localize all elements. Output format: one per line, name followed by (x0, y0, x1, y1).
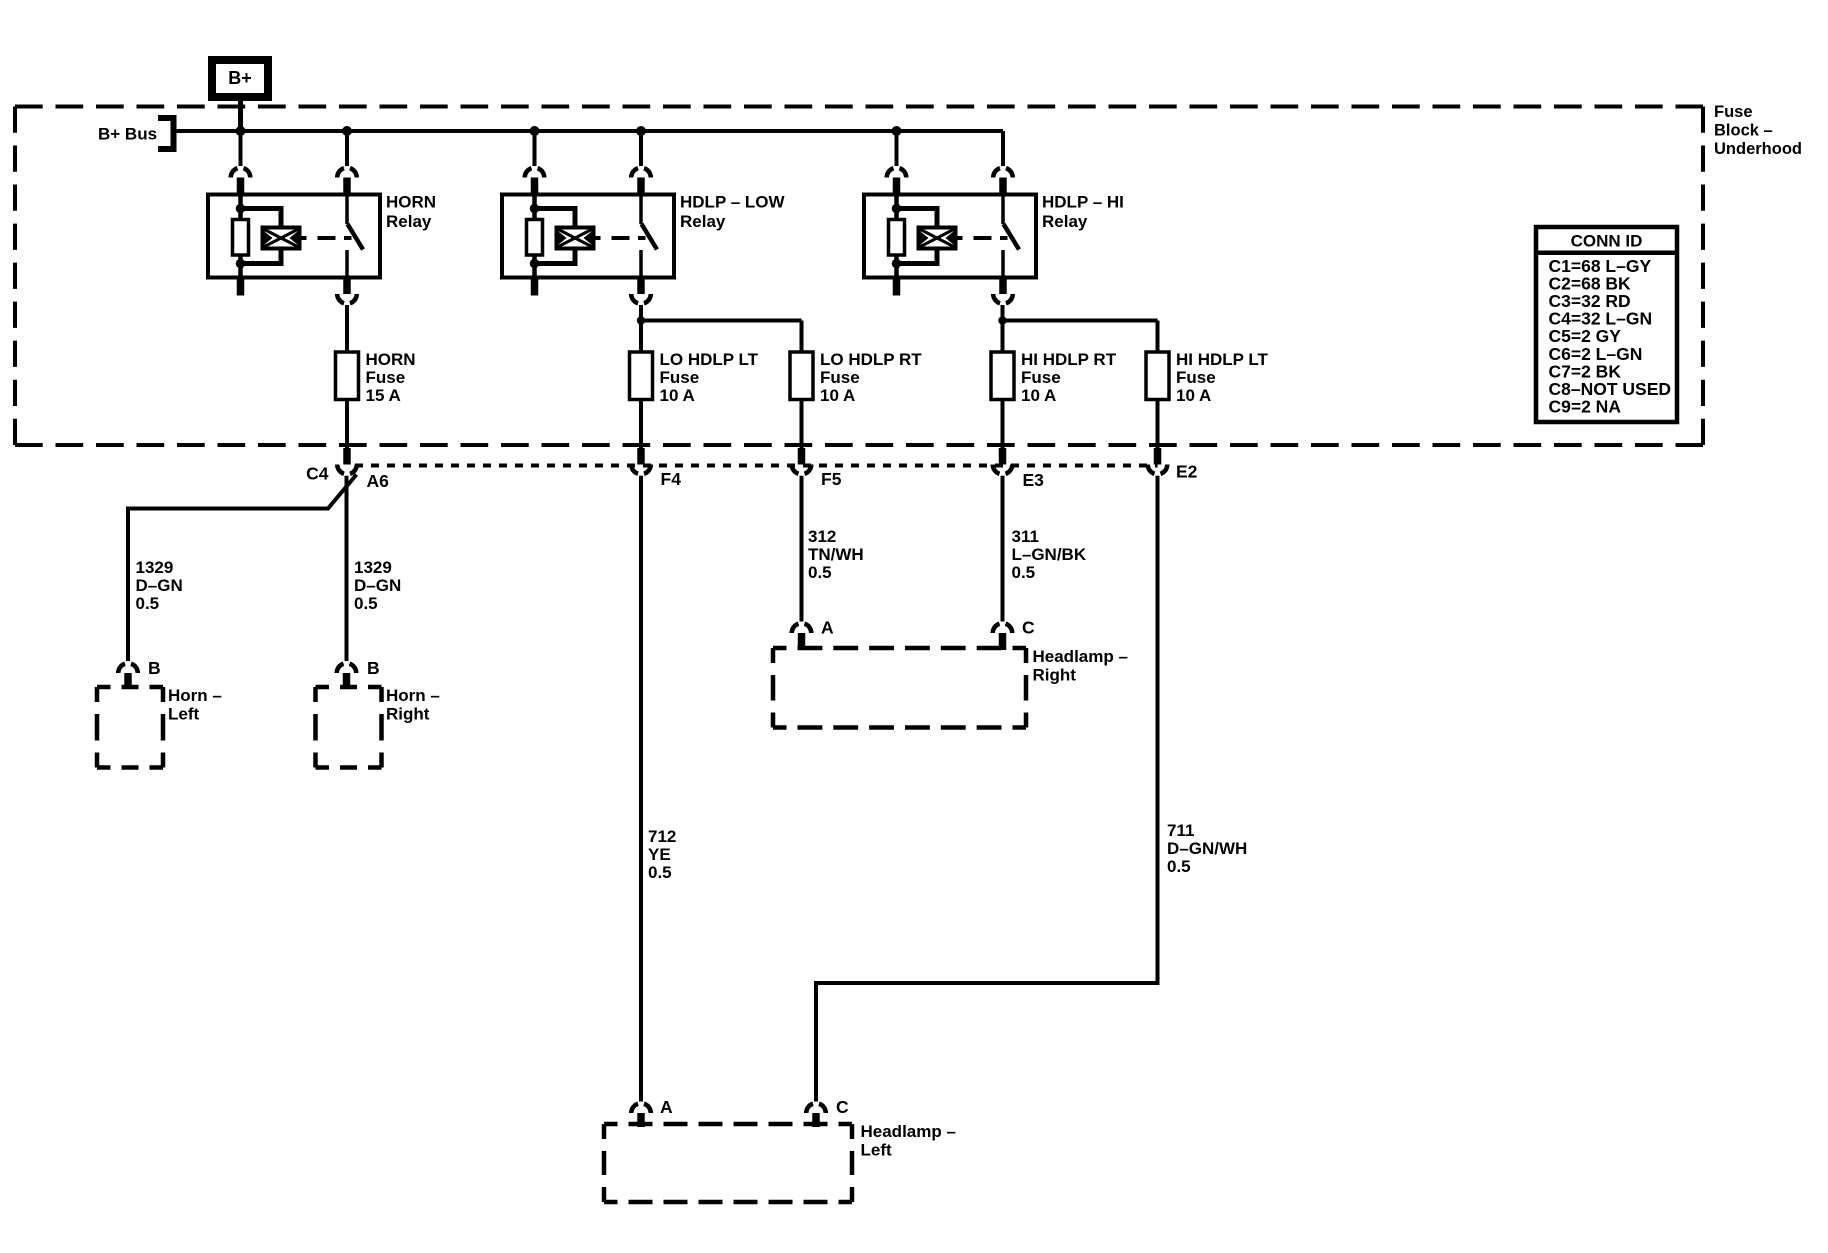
resistor (relay HDLP &#8211; HI coil suppression) (894, 195, 899, 220)
svg-text:Headlamp –: Headlamp – (1033, 647, 1128, 666)
connector: Headlamp-Left pin C (806, 1104, 826, 1113)
svg-text:A: A (660, 1097, 673, 1117)
node: bus junction (coil feed) (236, 126, 246, 136)
dotted connector pass-through line C4/A6..E2 (355, 464, 1158, 468)
connector: relay HDLP &#8211; LOW switch output pin (637, 276, 645, 295)
svg-text:10 A: 10 A (1176, 386, 1211, 405)
svg-text:HI HDLP LT: HI HDLP LT (1176, 350, 1269, 369)
fuse HORN 15 A (336, 352, 359, 400)
svg-text:C: C (1022, 618, 1035, 638)
node: bus junction (coil feed) (892, 126, 902, 136)
svg-text:0.5: 0.5 (808, 563, 832, 582)
svg-text:1329: 1329 (354, 558, 392, 577)
connector: relay HDLP &#8211; HI switch output pin (999, 276, 1007, 295)
connector: relay HORN switch output pin (343, 276, 351, 295)
svg-text:E3: E3 (1023, 470, 1045, 490)
svg-text:D–GN/WH: D–GN/WH (1167, 839, 1247, 858)
node: coil top junction (236, 204, 246, 214)
svg-text:YE: YE (648, 845, 671, 864)
wire: bus drop to HDLP &#8211; HI relay coil (895, 131, 899, 166)
fuse block border (Fuse Block - Underhood) (15, 107, 1703, 446)
connector: HDLP &#8211; LOW relay switch pin (631, 168, 651, 177)
svg-text:B: B (148, 658, 161, 678)
node: bus junction (switch feed) (636, 126, 646, 136)
relay coil winding symbol (919, 228, 956, 249)
label: 1329 D-GN 0.5 (left) (136, 558, 183, 613)
svg-text:TN/WH: TN/WH (808, 545, 864, 564)
wire: circuit 712 YE (F4 to headlamp left A) (639, 476, 643, 1102)
connector: HORN relay coil pin (231, 168, 251, 177)
relay HDLP &#8211; HI coil output stub (893, 278, 901, 296)
svg-text:Fuse: Fuse (820, 368, 860, 387)
svg-text:Fuse: Fuse (366, 368, 406, 387)
svg-text:10 A: 10 A (660, 386, 695, 405)
svg-text:15 A: 15 A (366, 386, 401, 405)
wire: coil branch loop (241, 209, 282, 264)
svg-text:0.5: 0.5 (648, 863, 672, 882)
svg-text:C: C (836, 1097, 849, 1117)
svg-text:Left: Left (861, 1141, 893, 1160)
svg-text:1329: 1329 (136, 558, 174, 577)
svg-text:E2: E2 (1176, 462, 1198, 482)
svg-text:A: A (821, 618, 834, 638)
wire: B+ feed from terminal to bus (238, 97, 243, 131)
connector: Horn-Left pin B (118, 664, 138, 673)
wire: coil branch loop (897, 209, 938, 264)
Horn - Left (device) (97, 685, 163, 690)
wire: winding to switch (dashed actuation link) (956, 236, 963, 240)
relay coil winding symbol (557, 228, 594, 249)
node: junction under LOW relay (637, 316, 645, 324)
relay HDLP &#8211; LOW box (502, 195, 674, 278)
svg-text:F5: F5 (821, 469, 842, 489)
B+ terminal (212, 60, 268, 97)
wire: B+ bus (177, 129, 1004, 133)
svg-text:Fuse: Fuse (1021, 368, 1061, 387)
wire into fuse at x=1157.5 (1156, 321, 1160, 353)
svg-text:C4: C4 (306, 464, 329, 484)
relay HDLP &#8211; LOW coil output stub (531, 278, 539, 296)
wire: circuit 1329 to Horn-Right (from A6 down) (345, 476, 349, 661)
svg-text:LO HDLP LT: LO HDLP LT (660, 350, 759, 369)
wire: LOW relay output split to RT fuse (641, 319, 802, 323)
Headlamp - Right (device) (773, 646, 1026, 651)
switch (relay HORN contacts) (345, 195, 349, 225)
label: Fuse Block - Underhood (1714, 103, 1802, 158)
node: coil bottom junction (236, 259, 246, 269)
svg-text:LO HDLP RT: LO HDLP RT (820, 350, 922, 369)
svg-text:10 A: 10 A (820, 386, 855, 405)
svg-text:D–GN: D–GN (136, 576, 183, 595)
svg-text:Horn –: Horn – (386, 686, 440, 705)
wire: winding to switch (dashed actuation link) (300, 236, 307, 240)
node: coil top junction (892, 204, 902, 214)
resistor (relay HDLP &#8211; LOW coil suppression) (532, 195, 537, 220)
connector: HDLP &#8211; HI relay switch pin (993, 168, 1013, 177)
svg-text:Relay: Relay (386, 212, 432, 231)
wire into fuse at x=801.5 (800, 321, 804, 353)
svg-text:0.5: 0.5 (1167, 857, 1191, 876)
fuse LO HDLP RT 10 A (790, 352, 813, 400)
relay HORN coil output stub (237, 278, 245, 296)
CONN ID table (1536, 227, 1677, 422)
node: bus junction (switch feed) (342, 126, 352, 136)
relay coil winding symbol (263, 228, 300, 249)
svg-text:712: 712 (648, 827, 676, 846)
svg-text:C9=2 NA: C9=2 NA (1549, 397, 1622, 417)
connector: fuse block terminal F4 (637, 448, 645, 465)
svg-text:Headlamp –: Headlamp – (861, 1122, 956, 1141)
svg-text:Fuse: Fuse (1714, 103, 1753, 121)
wire: coil branch loop (535, 209, 576, 264)
svg-text:Relay: Relay (1042, 212, 1088, 231)
wire: HI relay output split to LT fuse (1003, 319, 1158, 323)
node: coil bottom junction (530, 259, 540, 269)
svg-text:711: 711 (1167, 821, 1194, 840)
fuse HI HDLP RT 10 A (991, 352, 1014, 400)
svg-text:Right: Right (1033, 666, 1077, 685)
svg-text:Fuse: Fuse (1176, 368, 1216, 387)
svg-text:0.5: 0.5 (1012, 563, 1036, 582)
wire: winding to switch (dashed actuation link) (594, 236, 601, 240)
svg-text:Left: Left (168, 705, 200, 724)
wire: bus drop to HDLP &#8211; HI relay switch (1001, 131, 1005, 166)
svg-text:HORN: HORN (386, 193, 436, 212)
connector: fuse block terminal E3 (999, 448, 1007, 465)
wire: circuit 312 TN/WH (F5 to headlamp right A) (800, 476, 804, 622)
svg-text:0.5: 0.5 (354, 594, 378, 613)
label: 712 YE 0.5 (648, 827, 676, 882)
svg-text:10 A: 10 A (1021, 386, 1056, 405)
relay HDLP &#8211; HI box (864, 195, 1036, 278)
svg-text:HORN: HORN (366, 350, 416, 369)
svg-text:D–GN: D–GN (354, 576, 401, 595)
wire: circuit 711 D-GN/WH (E2 to headlamp left C) (816, 476, 1158, 1102)
svg-text:HDLP – HI: HDLP – HI (1042, 193, 1124, 212)
connector: fuse block terminal F5 (798, 448, 806, 465)
connector: HORN relay switch pin (337, 168, 357, 177)
switch (relay HDLP &#8211; HI contacts) (1001, 195, 1005, 225)
connector: HDLP &#8211; HI relay coil pin (887, 168, 907, 177)
connector: fuse block terminal E2 (1154, 448, 1162, 465)
node: bus junction (coil feed) (530, 126, 540, 136)
svg-text:B+ Bus: B+ Bus (98, 125, 157, 144)
label: 311 L-GN/BK 0.5 (1012, 527, 1087, 582)
svg-text:B: B (367, 658, 380, 678)
connector: Headlamp-Right pin C (993, 624, 1013, 633)
connector: Headlamp-Right pin A (792, 624, 812, 633)
fuse HI HDLP LT 10 A (1146, 352, 1169, 400)
wire: circuit 311 L-GN/BK (E3 to headlamp right C) (1001, 476, 1005, 622)
wire: bus drop to HORN relay switch (345, 131, 349, 166)
connector: fuse block terminal C4/A6 (343, 448, 351, 465)
relay HORN box (208, 195, 380, 278)
Headlamp - Left (device) (604, 1122, 852, 1127)
B+ bus bracket (158, 118, 174, 149)
connector: HDLP &#8211; LOW relay coil pin (525, 168, 545, 177)
svg-text:HI HDLP RT: HI HDLP RT (1021, 350, 1117, 369)
fuse LO HDLP LT 10 A (630, 352, 653, 400)
node: coil top junction (530, 204, 540, 214)
svg-text:L–GN/BK: L–GN/BK (1012, 545, 1087, 564)
label: 711 D-GN/WH 0.5 (1167, 821, 1247, 876)
svg-text:Relay: Relay (680, 212, 726, 231)
wire: circuit 1329 branch to Horn-Left (128, 475, 357, 662)
node: coil bottom junction (892, 259, 902, 269)
svg-text:Horn –: Horn – (168, 686, 222, 705)
svg-text:F4: F4 (661, 469, 682, 489)
Horn - Right (device) (316, 685, 382, 690)
wire: bus drop to HDLP &#8211; LOW relay coil (533, 131, 537, 166)
svg-text:Underhood: Underhood (1714, 140, 1802, 158)
svg-text:A6: A6 (367, 471, 390, 491)
connector: Horn-Right pin B (337, 664, 357, 673)
label: 312 TN/WH 0.5 (808, 527, 864, 582)
wire into fuse at x=347 (345, 305, 349, 352)
wire into fuse at x=1002.5 (1001, 305, 1005, 352)
resistor (relay HORN coil suppression) (238, 195, 243, 220)
wire: bus drop to HORN relay coil (239, 131, 243, 166)
svg-text:312: 312 (808, 527, 836, 546)
svg-text:Block –: Block – (1714, 122, 1773, 140)
svg-text:HDLP – LOW: HDLP – LOW (680, 193, 785, 212)
connector: Headlamp-Left pin A (631, 1104, 651, 1113)
wire: bus drop to HDLP &#8211; LOW relay switch (639, 131, 643, 166)
svg-text:Right: Right (386, 705, 430, 724)
switch (relay HDLP &#8211; LOW contacts) (639, 195, 643, 225)
svg-text:B+: B+ (228, 68, 252, 88)
svg-text:Fuse: Fuse (660, 368, 700, 387)
svg-text:311: 311 (1012, 527, 1039, 546)
wire into fuse at x=641 (639, 305, 643, 352)
label: 1329 D-GN 0.5 (right) (354, 558, 401, 613)
node: junction under HI relay (998, 316, 1006, 324)
svg-text:0.5: 0.5 (136, 594, 160, 613)
svg-text:CONN ID: CONN ID (1571, 232, 1643, 251)
